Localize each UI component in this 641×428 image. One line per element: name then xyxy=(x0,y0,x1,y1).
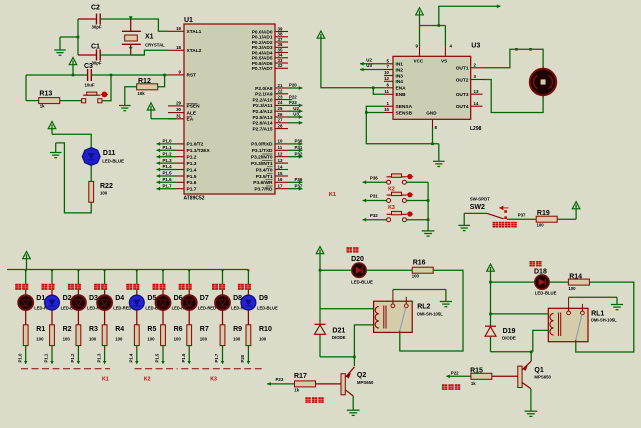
pin P1.2 stub xyxy=(176,156,184,158)
wire D18 to R14 xyxy=(549,281,568,283)
wire to D18 xyxy=(491,281,535,283)
diode D19 xyxy=(490,314,492,326)
svg-text:13: 13 xyxy=(474,89,479,94)
svg-text:39: 39 xyxy=(278,26,283,31)
pin P1.3 stub xyxy=(176,162,184,164)
svg-text:P0.1/AD1: P0.1/AD1 xyxy=(252,35,273,41)
label heat 6 xyxy=(153,284,159,290)
svg-text:ALE: ALE xyxy=(187,110,197,116)
junction xyxy=(77,36,80,39)
pin ENA stub xyxy=(384,87,393,89)
svg-text:P1.4: P1.4 xyxy=(187,167,197,173)
wire button bus xyxy=(427,182,429,231)
svg-text:10uF: 10uF xyxy=(85,83,95,88)
svg-text:P1.4: P1.4 xyxy=(163,164,173,169)
label heat 3 xyxy=(68,284,74,290)
pin P1.0 stub xyxy=(176,143,184,145)
power xyxy=(487,264,495,271)
pin OUT3 stub xyxy=(471,93,483,95)
switch SW2 xyxy=(487,213,504,218)
svg-text:R12: R12 xyxy=(138,78,151,85)
capacitor C3 xyxy=(87,69,89,81)
svg-text:MPS650: MPS650 xyxy=(534,375,551,380)
svg-text:P2.5/A13: P2.5/A13 xyxy=(252,115,272,121)
svg-text:SENSA: SENSA xyxy=(396,104,413,110)
svg-text:IN2: IN2 xyxy=(396,67,404,73)
ground xyxy=(525,410,538,412)
svg-text:P20: P20 xyxy=(289,83,297,88)
svg-text:D7: D7 xyxy=(200,295,209,302)
svg-text:VCC: VCC xyxy=(414,59,424,64)
pin P3.0 stub xyxy=(275,143,288,145)
svg-text:P1.3: P1.3 xyxy=(96,353,101,362)
pin P3.2 stub xyxy=(275,156,288,158)
wire to D20 xyxy=(320,269,352,271)
button K3 xyxy=(387,218,391,222)
wire R10 down xyxy=(247,346,249,364)
junction xyxy=(365,111,368,114)
wire net on pin 25 xyxy=(288,110,302,112)
wire RL1 contact to ground xyxy=(569,296,617,298)
svg-text:R15: R15 xyxy=(470,367,483,374)
wire coil top xyxy=(491,313,549,315)
relay RL1 coil xyxy=(550,314,554,336)
LED D1 xyxy=(18,295,33,310)
svg-text:LED-BLUE: LED-BLUE xyxy=(257,305,278,310)
svg-text:OUT3: OUT3 xyxy=(456,92,469,98)
svg-text:P1.1/T2EX: P1.1/T2EX xyxy=(187,148,211,154)
svg-text:100: 100 xyxy=(259,336,267,341)
crystal X1 xyxy=(125,35,138,41)
svg-text:100: 100 xyxy=(412,274,420,279)
svg-text:P32: P32 xyxy=(370,213,378,218)
wire to bus xyxy=(406,200,428,202)
svg-text:P1.5: P1.5 xyxy=(155,353,160,362)
wire rail to D7 xyxy=(188,270,190,288)
power xyxy=(317,31,325,38)
ground xyxy=(60,36,78,38)
svg-text:23: 23 xyxy=(278,94,283,99)
junction xyxy=(135,270,138,273)
svg-text:P1.4: P1.4 xyxy=(129,353,134,362)
wire R5 down xyxy=(136,346,138,364)
wire rail to D5 xyxy=(136,270,138,288)
svg-text:OMI-SH-105L: OMI-SH-105L xyxy=(591,318,618,323)
wire rail to D6 xyxy=(162,270,164,288)
wire net P1.7 xyxy=(157,188,177,190)
wire net U2 xyxy=(360,63,384,65)
pin RST stub xyxy=(168,74,184,76)
LED D6 xyxy=(156,295,171,310)
svg-text:D21: D21 xyxy=(332,327,345,334)
svg-text:ENA: ENA xyxy=(396,86,407,92)
svg-text:LED-BLUE: LED-BLUE xyxy=(102,159,124,164)
wire rail to D8 xyxy=(222,270,224,288)
svg-text:R9: R9 xyxy=(233,326,242,333)
wire net P32 xyxy=(288,156,302,158)
svg-text:R17: R17 xyxy=(294,373,307,380)
capacitor C2 xyxy=(96,14,98,25)
svg-text:L298: L298 xyxy=(470,126,482,132)
pin P2.6 stub xyxy=(275,122,288,124)
pin P2.3 stub xyxy=(275,104,288,106)
pin VS stub xyxy=(444,46,446,56)
pin P2.0 stub xyxy=(275,87,288,89)
wire net U3 xyxy=(360,69,384,71)
pin P1.5 stub xyxy=(176,175,184,177)
LED D5 xyxy=(129,295,144,310)
svg-text:R4: R4 xyxy=(115,326,124,333)
wire net P36 xyxy=(363,181,387,183)
pin P0.4 stub xyxy=(275,52,288,54)
svg-text:P22: P22 xyxy=(289,94,297,99)
svg-text:XTAL2: XTAL2 xyxy=(187,48,202,54)
ground xyxy=(438,144,440,162)
capacitor C1 xyxy=(96,50,98,61)
power xyxy=(572,202,580,209)
wire K2 group dash xyxy=(135,368,178,370)
svg-text:14: 14 xyxy=(474,101,479,106)
svg-text:100: 100 xyxy=(537,223,545,228)
pin P0.0 stub xyxy=(275,31,288,33)
svg-text:P0.2/AD2: P0.2/AD2 xyxy=(252,40,273,46)
svg-text:IN4: IN4 xyxy=(396,79,404,85)
svg-text:K1: K1 xyxy=(102,377,109,383)
svg-text:R5: R5 xyxy=(147,326,156,333)
pin P2.7 stub xyxy=(275,128,288,130)
pin P3.5 stub xyxy=(275,175,288,177)
svg-text:100: 100 xyxy=(63,336,71,341)
wire D9 to R10 xyxy=(247,310,249,325)
svg-text:SW2: SW2 xyxy=(470,204,485,211)
svg-text:30pF: 30pF xyxy=(92,61,102,66)
svg-text:P1.7: P1.7 xyxy=(163,183,173,188)
svg-text:LED-RED: LED-RED xyxy=(198,305,216,310)
wire R13 leads xyxy=(26,100,39,102)
wire rail to D2 xyxy=(51,270,53,288)
svg-text:C3: C3 xyxy=(84,63,93,70)
svg-text:17: 17 xyxy=(278,184,283,189)
svg-text:31: 31 xyxy=(176,113,181,118)
svg-text:P3.1/TXD: P3.1/TXD xyxy=(252,148,273,154)
svg-text:LED-BLUE: LED-BLUE xyxy=(535,291,557,296)
svg-text:SW-SPDT: SW-SPDT xyxy=(470,197,490,202)
wire button to RST xyxy=(102,75,111,101)
wire SW2 to R19 xyxy=(507,218,536,220)
pin P3.3 stub xyxy=(275,162,288,164)
svg-text:R7: R7 xyxy=(200,326,209,333)
svg-text:100: 100 xyxy=(147,336,155,341)
wire to bus xyxy=(406,219,428,221)
svg-text:RL1: RL1 xyxy=(591,310,604,317)
svg-text:D4: D4 xyxy=(115,295,124,302)
wire net P22 xyxy=(446,375,471,377)
wire net P30 xyxy=(288,143,302,145)
power xyxy=(23,252,31,259)
label heat 7 xyxy=(179,284,185,290)
svg-text:R22: R22 xyxy=(100,183,113,190)
resistor R14 xyxy=(568,279,589,285)
pin P0.6 stub xyxy=(275,62,288,64)
resistor R1 xyxy=(23,325,28,346)
ground xyxy=(55,143,57,153)
wire R9 down xyxy=(222,346,224,364)
svg-text:P20: P20 xyxy=(240,354,245,362)
transistor Q1 xyxy=(530,352,532,361)
svg-text:PSEN: PSEN xyxy=(187,104,201,110)
wire OUT2 to motor xyxy=(483,80,544,113)
svg-text:P3.5/T1: P3.5/T1 xyxy=(256,174,273,180)
svg-text:P3.3/INT1: P3.3/INT1 xyxy=(251,161,273,167)
wire net P37 xyxy=(288,188,302,190)
svg-text:P1.2: P1.2 xyxy=(187,155,197,161)
pin P1.1 stub xyxy=(176,149,184,151)
wire coil bottom xyxy=(533,330,549,351)
svg-text:18: 18 xyxy=(176,45,181,50)
svg-text:P2.2/A10: P2.2/A10 xyxy=(252,97,272,103)
pin P0.1 stub xyxy=(275,36,288,38)
svg-text:10: 10 xyxy=(278,139,283,144)
svg-text:P1.5: P1.5 xyxy=(163,171,173,176)
svg-text:12: 12 xyxy=(278,152,283,157)
resistor R17 xyxy=(295,381,316,387)
wire R14 to contact xyxy=(576,282,634,352)
svg-text:RL2: RL2 xyxy=(417,303,430,310)
LED D8 xyxy=(215,295,230,310)
pin ENB stub xyxy=(384,93,393,95)
svg-text:U1: U1 xyxy=(184,17,193,24)
svg-text:26: 26 xyxy=(278,112,283,117)
wire R2 down xyxy=(51,346,53,364)
svg-text:100: 100 xyxy=(174,336,182,341)
svg-text:ENB: ENB xyxy=(396,92,407,98)
wire VCC branch xyxy=(490,271,492,314)
svg-text:P1.0: P1.0 xyxy=(163,139,173,144)
resistor R13 xyxy=(39,98,60,104)
wire C2 right to XTAL1 xyxy=(100,19,168,31)
svg-text:P37: P37 xyxy=(295,183,303,188)
svg-text:25: 25 xyxy=(278,106,283,111)
wire R4 down xyxy=(104,346,106,364)
svg-text:30: 30 xyxy=(176,107,181,112)
svg-text:GND: GND xyxy=(426,111,437,116)
button RESET xyxy=(82,99,86,103)
svg-text:U2: U2 xyxy=(293,106,299,111)
svg-text:22: 22 xyxy=(278,89,283,94)
svg-text:R16: R16 xyxy=(413,259,426,266)
pin P2.2 stub xyxy=(275,99,292,101)
resistor R12 xyxy=(137,84,158,90)
resistor R19 xyxy=(536,216,557,222)
svg-text:P1.6: P1.6 xyxy=(187,180,197,186)
svg-text:19: 19 xyxy=(176,26,181,31)
svg-text:C1: C1 xyxy=(91,44,100,51)
LED D9 xyxy=(241,295,256,310)
wire net on pin 26 xyxy=(288,116,302,118)
svg-text:P32: P32 xyxy=(295,151,303,156)
svg-text:R3: R3 xyxy=(89,326,98,333)
svg-text:29: 29 xyxy=(176,100,181,105)
wire net P23 xyxy=(267,383,294,385)
label heat 4 xyxy=(94,284,100,290)
relay RL1 body xyxy=(548,308,588,341)
svg-text:K1: K1 xyxy=(329,192,336,198)
junction xyxy=(247,270,250,273)
svg-text:P3.6/WR: P3.6/WR xyxy=(253,180,273,186)
svg-text:14: 14 xyxy=(278,164,283,169)
junction xyxy=(431,143,434,146)
power xyxy=(147,103,155,110)
svg-text:D1: D1 xyxy=(36,295,45,302)
svg-text:P23: P23 xyxy=(289,100,297,105)
pin P1.7 stub xyxy=(176,188,184,190)
svg-text:K3: K3 xyxy=(388,205,395,211)
pin P2.4 stub xyxy=(275,110,288,112)
wire supply rail xyxy=(439,6,501,25)
svg-text:11: 11 xyxy=(278,145,283,150)
pin P2.5 stub xyxy=(275,116,288,118)
resistor R9 xyxy=(220,325,225,346)
svg-text:P2.0/A8: P2.0/A8 xyxy=(255,86,273,92)
junction xyxy=(129,16,133,20)
svg-text:LED-RED: LED-RED xyxy=(113,305,131,310)
svg-text:AT89C52: AT89C52 xyxy=(184,196,205,202)
pin P3.1 stub xyxy=(275,149,288,151)
junction xyxy=(372,87,375,90)
wire R12 left to ground xyxy=(125,87,137,106)
label cooler tube xyxy=(442,384,447,390)
pin P0.7 stub xyxy=(275,67,288,69)
svg-text:100: 100 xyxy=(233,336,241,341)
wire net on pin 21 xyxy=(288,87,302,89)
wire D11 to R22 xyxy=(90,165,92,181)
pin P0.3 stub xyxy=(275,46,288,48)
junction xyxy=(103,270,106,273)
label heat 8 xyxy=(212,284,218,290)
pin stubs RL1 xyxy=(568,297,570,311)
svg-text:U3: U3 xyxy=(471,43,480,50)
svg-text:32: 32 xyxy=(278,63,283,68)
wire net P31 xyxy=(363,200,387,202)
power xyxy=(69,58,77,65)
label heater tube xyxy=(305,397,310,403)
wire D8 to R9 xyxy=(222,310,224,325)
wire ENA ENB xyxy=(321,39,384,88)
pin XTAL2 stub xyxy=(168,49,184,51)
svg-text:DIODE: DIODE xyxy=(332,335,346,340)
wire net P1.0 xyxy=(157,143,177,145)
wire LED rail xyxy=(7,269,248,271)
resistor R10 xyxy=(246,325,251,346)
pin P3.6 stub xyxy=(275,181,288,183)
svg-text:P0.3/AD3: P0.3/AD3 xyxy=(252,45,273,51)
svg-text:MPS650: MPS650 xyxy=(357,380,374,385)
wire D20 to R16 xyxy=(366,269,412,271)
svg-text:P1.6: P1.6 xyxy=(163,177,173,182)
wire RST right segment xyxy=(91,74,168,76)
svg-text:DIODE: DIODE xyxy=(502,336,516,341)
resistor R15 xyxy=(471,373,492,379)
junction xyxy=(188,270,191,273)
svg-text:33: 33 xyxy=(278,58,283,63)
wire R16 to contact xyxy=(400,270,463,351)
pin IN4 stub xyxy=(384,80,393,82)
wire VCC to D11 xyxy=(52,134,91,148)
relay RL2 coil xyxy=(375,307,379,329)
label heat 1 xyxy=(15,284,21,290)
junction xyxy=(353,356,356,359)
pin IN2 stub xyxy=(384,69,393,71)
ground xyxy=(458,224,470,226)
svg-text:P23: P23 xyxy=(276,377,284,382)
svg-text:1k: 1k xyxy=(294,388,299,393)
LED D2 xyxy=(45,295,60,310)
svg-text:R10: R10 xyxy=(259,326,272,333)
svg-text:U2: U2 xyxy=(366,57,372,62)
wire EA xyxy=(151,118,176,120)
pin OUT2 stub xyxy=(471,79,483,81)
svg-text:100: 100 xyxy=(36,336,44,341)
junction xyxy=(163,74,166,77)
label heat 9 xyxy=(238,284,244,290)
svg-text:P30: P30 xyxy=(295,139,303,144)
junction xyxy=(77,270,80,273)
LED D7 xyxy=(182,295,197,310)
wire to bus xyxy=(406,181,428,183)
label heat 2 xyxy=(42,284,48,290)
svg-text:P22: P22 xyxy=(451,371,459,376)
pin P1.4 stub xyxy=(176,169,184,171)
pin P0.5 stub xyxy=(275,57,288,59)
svg-text:CRYSTAL: CRYSTAL xyxy=(145,43,165,48)
wire net P31 xyxy=(288,149,302,151)
svg-text:R1: R1 xyxy=(36,326,45,333)
svg-text:30pF: 30pF xyxy=(92,25,102,30)
junction xyxy=(438,24,441,27)
svg-text:35: 35 xyxy=(278,47,283,52)
ground xyxy=(119,105,131,107)
svg-text:P3.0/RXD: P3.0/RXD xyxy=(251,142,273,148)
wire XTAL2 xyxy=(131,50,168,55)
pin P3.7 stub xyxy=(275,188,288,190)
svg-text:R14: R14 xyxy=(569,274,582,281)
wire net P1.4 xyxy=(157,169,177,171)
svg-text:15: 15 xyxy=(278,171,283,176)
svg-text:P0.6/AD6: P0.6/AD6 xyxy=(252,61,273,67)
LED D3 xyxy=(71,295,86,310)
pin P2.1 stub xyxy=(275,93,288,95)
LED D4 xyxy=(97,295,112,310)
svg-text:P37: P37 xyxy=(518,212,526,217)
wire R12 right to RST xyxy=(158,75,165,87)
wire R22 return to ground xyxy=(56,143,91,213)
wire R6 down xyxy=(162,346,164,364)
svg-text:13: 13 xyxy=(278,158,283,163)
motor xyxy=(542,66,544,98)
junction xyxy=(161,270,164,273)
svg-text:100: 100 xyxy=(100,191,108,196)
wire C2 left lead xyxy=(78,18,97,20)
driver U3 body xyxy=(393,56,471,119)
svg-text:RST: RST xyxy=(187,73,197,79)
resistor R3 xyxy=(76,325,81,346)
wire coil top xyxy=(320,308,374,310)
svg-text:11: 11 xyxy=(384,89,389,94)
pin ALE stub xyxy=(168,112,184,114)
svg-text:D20: D20 xyxy=(351,256,364,263)
pin stubs RL2 xyxy=(392,290,394,304)
svg-text:28: 28 xyxy=(278,123,283,128)
